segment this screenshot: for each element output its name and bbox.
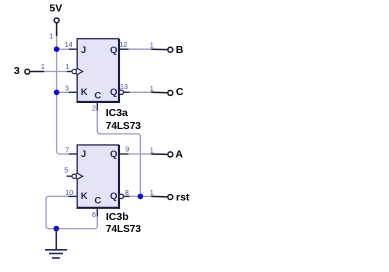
pin stub Q2bar pin8 <box>124 195 130 197</box>
pin stub K1 pin3 <box>69 91 78 93</box>
wire CLR1 pin2 to rst net <box>97 108 140 196</box>
svg-text:IC3b: IC3b <box>106 211 129 223</box>
wire Q1bar to C <box>129 91 153 93</box>
svg-text:1: 1 <box>150 188 154 197</box>
terminal lead B <box>151 48 167 50</box>
svg-text:C: C <box>94 91 101 102</box>
junction node K1 5V <box>54 90 60 96</box>
terminal lead 5V <box>56 23 58 36</box>
svg-text:9: 9 <box>125 145 129 154</box>
pin stub J1 pin14 <box>69 48 78 50</box>
svg-text:5: 5 <box>64 165 68 174</box>
pin stub J2 pin7 <box>69 153 78 155</box>
svg-text:Q: Q <box>110 45 117 56</box>
svg-text:10: 10 <box>65 188 73 197</box>
wire Q2 to A <box>128 153 153 155</box>
svg-text:74LS73: 74LS73 <box>106 121 141 132</box>
pin stub Q1 pin12 <box>119 48 129 50</box>
svg-text:1: 1 <box>49 31 53 40</box>
junction node rst <box>138 194 144 200</box>
svg-text:1: 1 <box>41 62 45 71</box>
svg-text:14: 14 <box>65 40 73 49</box>
terminal lead 3 <box>30 71 44 73</box>
svg-text:IC3a: IC3a <box>106 107 128 119</box>
svg-text:C: C <box>94 196 101 207</box>
terminal lead rst <box>151 195 167 198</box>
junction node ground <box>54 226 60 232</box>
svg-text:74LS73: 74LS73 <box>106 224 141 235</box>
svg-text:Q: Q <box>110 191 117 202</box>
svg-text:7: 7 <box>65 146 69 155</box>
pin stub Q2 pin9 <box>119 153 129 155</box>
svg-text:rst: rst <box>176 192 190 204</box>
pin stub K2 pin10 <box>69 195 78 197</box>
IC3b flip-flop body <box>77 145 120 208</box>
svg-text:6: 6 <box>92 210 96 219</box>
svg-text:K: K <box>81 87 88 98</box>
terminal circle 3 <box>25 69 30 74</box>
pin stub clock2 pin5 unconnected <box>67 175 73 177</box>
IC3a flip-flop body <box>77 39 120 102</box>
terminal circle 5V <box>54 18 59 23</box>
pin stub CLR1 pin2 <box>96 102 98 111</box>
svg-text:J: J <box>81 45 86 56</box>
svg-text:B: B <box>176 44 184 56</box>
clock marker IC3b <box>72 173 83 179</box>
svg-text:Q: Q <box>110 149 117 160</box>
svg-text:13: 13 <box>120 82 128 91</box>
terminal circle C <box>168 90 173 95</box>
svg-text:1: 1 <box>150 145 154 154</box>
svg-text:5V: 5V <box>49 2 62 14</box>
svg-text:2: 2 <box>92 104 96 113</box>
svg-text:12: 12 <box>119 40 127 49</box>
wire 5V vertical net <box>57 32 71 154</box>
wire K1 branch <box>57 91 71 93</box>
svg-text:8: 8 <box>125 188 129 197</box>
pin stub Q1bar pin13 <box>124 91 130 93</box>
wire clock1 net <box>44 71 69 73</box>
wire Q1 to B <box>128 48 153 50</box>
terminal circle rst <box>168 195 173 200</box>
wire J1 branch <box>57 48 71 50</box>
svg-text:Q: Q <box>110 87 117 98</box>
bubble Q2bar <box>119 194 123 198</box>
svg-text:C: C <box>176 86 184 98</box>
svg-text:1: 1 <box>65 62 69 71</box>
ground <box>45 229 67 258</box>
junction node J1 5V <box>54 46 60 52</box>
wire K2 CLR2 ground loop <box>46 196 97 228</box>
pin stub CLR2 pin6 <box>96 208 98 217</box>
svg-text:J: J <box>81 149 86 160</box>
wire Q2bar to rst <box>129 195 153 197</box>
pin stub clock1 pin1 <box>67 71 73 73</box>
svg-text:1: 1 <box>150 40 154 49</box>
clock marker IC3a <box>72 69 83 75</box>
bubble Q1bar <box>119 90 123 94</box>
terminal lead A <box>151 153 167 155</box>
terminal circle A <box>168 152 173 157</box>
terminal circle B <box>168 47 173 52</box>
terminal lead C <box>151 91 167 94</box>
svg-text:3: 3 <box>65 83 69 92</box>
svg-text:K: K <box>81 191 88 202</box>
svg-text:1: 1 <box>150 84 154 93</box>
svg-text:A: A <box>175 149 183 161</box>
svg-text:3: 3 <box>14 65 20 77</box>
